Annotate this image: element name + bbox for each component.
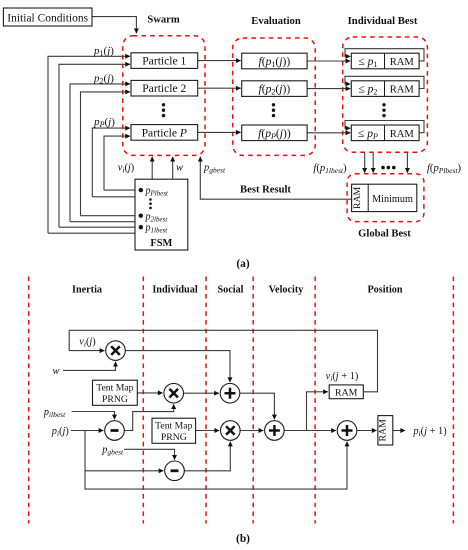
- svg-text:Social: Social: [217, 285, 243, 296]
- svg-text:Tent Map: Tent Map: [96, 382, 133, 393]
- svg-text:pi(j): pi(j): [51, 426, 69, 438]
- bullet p_2lbest: [139, 214, 143, 218]
- svg-text:Particle 2: Particle 2: [142, 82, 186, 95]
- dashed divider b6: [452, 277, 454, 524]
- box leq pP RAM: [351, 125, 419, 141]
- box leq p1 RAM: [351, 53, 419, 69]
- divider minimum RAM: [367, 184, 369, 211]
- svg-text:(b): (b): [236, 533, 250, 545]
- dashed box Swarm: [123, 36, 205, 156]
- wire ibest2 to minimum: [372, 152, 374, 173]
- svg-text:Particle P: Particle P: [142, 126, 187, 139]
- dashed divider b1: [28, 277, 30, 524]
- divider leq p1 RAM: [384, 53, 386, 69]
- svg-text:pi(j + 1): pi(j + 1): [412, 426, 446, 438]
- wire p1 upper: [48, 56, 130, 233]
- wire +2 out to +3: [284, 430, 336, 432]
- box f(p1(j)): [242, 53, 307, 69]
- box RAM position: [378, 416, 393, 445]
- wire p1 lower: [59, 64, 130, 227]
- svg-text:vi(j): vi(j): [79, 337, 96, 349]
- wire pi(j) to -2: [85, 470, 163, 472]
- symbol +1: [225, 388, 236, 399]
- PART B: [29, 277, 454, 524]
- box Particle 2: [131, 80, 198, 96]
- subtractor -2: [165, 461, 185, 481]
- dashed divider b4: [252, 277, 254, 524]
- wire pi(j) down branch: [85, 431, 347, 490]
- wire feedback loop rowP: [345, 121, 424, 133]
- svg-text:f(p1(j)): f(p1(j)): [259, 55, 291, 69]
- svg-text:Tent Map: Tent Map: [155, 420, 192, 431]
- svg-text:vi(j): vi(j): [118, 163, 135, 175]
- symbol +2: [269, 425, 280, 436]
- svg-text:PRNG: PRNG: [102, 394, 128, 405]
- wire +3 out to RAM2: [357, 430, 377, 432]
- svg-text:Velocity: Velocity: [269, 285, 304, 296]
- wire particle2 to f2: [198, 87, 241, 89]
- adder +1 individual: [220, 383, 240, 403]
- box Tent Map PRNG 2: [152, 418, 196, 443]
- svg-text:Minimum: Minimum: [372, 194, 413, 205]
- svg-text:p2(j): p2(j): [93, 72, 114, 85]
- wire init conditions to swarm: [92, 17, 136, 34]
- wire -2 out to X3 bottom: [184, 442, 230, 471]
- multiplier X1 inertia: [106, 341, 126, 361]
- svg-text:pP(j): pP(j): [93, 116, 115, 129]
- wire X1 out to +1 top: [125, 351, 230, 383]
- svg-text:RAM: RAM: [390, 129, 415, 140]
- bullet p_1lbest: [139, 225, 143, 229]
- wire +1 out to +2 top: [240, 393, 275, 419]
- svg-text:Best Result: Best Result: [240, 185, 291, 196]
- wire fP to leq pP: [307, 132, 350, 134]
- wire vi(j) feedback from RAM1: [69, 330, 377, 392]
- svg-text:Inertia: Inertia: [72, 285, 102, 296]
- dots individual best column: [382, 103, 385, 117]
- svg-text:Swarm: Swarm: [147, 14, 180, 25]
- svg-text:RAM: RAM: [390, 85, 415, 96]
- symbol +3: [342, 425, 353, 436]
- dashed divider b2: [142, 277, 144, 524]
- dots evaluation column: [272, 103, 275, 117]
- divider leq pP RAM: [384, 125, 386, 141]
- box Particle 1: [131, 53, 198, 69]
- box Minimum with RAM: [352, 184, 417, 211]
- wire f2 to leq p2: [307, 88, 350, 90]
- wire X3 out to +2: [240, 430, 263, 432]
- box f(p2(j)): [242, 81, 307, 97]
- wire junction to RAM1: [307, 392, 328, 431]
- wire pP upper: [92, 128, 130, 197]
- dashed divider b5: [314, 277, 316, 524]
- svg-text:f(p2(j)): f(p2(j)): [259, 83, 291, 97]
- wire pgbest to -2 top: [124, 449, 175, 459]
- wire particleP to fP: [198, 131, 241, 133]
- svg-text:Initial Conditions: Initial Conditions: [7, 12, 88, 24]
- svg-text:PRNG: PRNG: [161, 432, 187, 443]
- wire p2 upper: [70, 84, 130, 222]
- svg-text:RAM: RAM: [352, 186, 363, 209]
- wire p2 lower: [81, 92, 131, 216]
- wire pP lower: [104, 136, 130, 190]
- symbol X2: [169, 389, 178, 398]
- wire f1 to leq p1: [307, 60, 350, 62]
- svg-text:Global Best: Global Best: [358, 228, 411, 239]
- wire X2 out to +1: [184, 392, 219, 394]
- symbol X3: [226, 426, 235, 435]
- wire -1 out to X2 bottom: [124, 404, 173, 430]
- svg-text:(a): (a): [236, 258, 249, 270]
- svg-text:Individual: Individual: [152, 285, 197, 296]
- adder +3 position: [337, 421, 357, 441]
- svg-text:RAM: RAM: [390, 57, 415, 68]
- svg-text:Evaluation: Evaluation: [251, 16, 301, 27]
- symbol X1: [111, 346, 120, 355]
- box FSM: [135, 179, 188, 250]
- multiplier X3 social: [221, 421, 241, 441]
- subtractor -1: [105, 421, 125, 441]
- box RAM vi(j+1): [329, 385, 363, 399]
- multiplier X2 individual: [164, 383, 184, 403]
- dots between f arrows: [381, 166, 395, 170]
- wire fsm to swarm w: [172, 157, 174, 179]
- symbol -2: [171, 469, 179, 472]
- dots swarm column: [162, 103, 165, 117]
- wire particle1 to f1: [198, 60, 241, 62]
- svg-text:FSM: FSM: [150, 238, 172, 249]
- wire feedback loop row2: [345, 76, 424, 88]
- wire pilbest to -1 top: [72, 412, 115, 420]
- box Initial Conditions: [3, 8, 92, 26]
- dashed box Individual Best: [343, 37, 428, 152]
- svg-text:Particle 1: Particle 1: [142, 55, 186, 68]
- symbol -1: [111, 429, 119, 432]
- box Particle P: [131, 125, 198, 141]
- dashed divider b3: [205, 277, 207, 524]
- box Tent Map PRNG 1: [93, 380, 138, 405]
- svg-text:RAM: RAM: [335, 387, 358, 398]
- svg-text:RAM: RAM: [377, 419, 388, 442]
- adder +2 velocity: [265, 421, 285, 441]
- svg-text:w: w: [176, 163, 183, 174]
- wire RAM2 out: [393, 430, 405, 432]
- wire PRNG2 out to X3: [196, 430, 220, 432]
- dots fsm: [149, 198, 152, 209]
- svg-text:Individual Best: Individual Best: [348, 15, 418, 27]
- box f(pP(j)): [242, 125, 307, 141]
- wire ibest1 to minimum: [364, 152, 366, 173]
- dashed box Global Best: [347, 174, 424, 222]
- wire PRNG1 out to X2: [137, 392, 162, 394]
- svg-text:Position: Position: [367, 285, 402, 296]
- box leq p2 RAM: [351, 81, 419, 97]
- wire fsm to swarm vi(j): [151, 157, 153, 179]
- dashed box Evaluation: [233, 38, 316, 155]
- svg-text:p1(j): p1(j): [93, 45, 114, 58]
- wire ibestP to minimum: [406, 152, 408, 173]
- bullet p_Plbest: [139, 188, 143, 192]
- wire w to X1 bottom: [63, 362, 116, 371]
- wire feedback loop row1: [345, 49, 424, 61]
- wire pi(j) to -1: [71, 430, 104, 432]
- wire best result to pgbest: [200, 157, 351, 199]
- divider leq p2 RAM: [384, 81, 386, 97]
- svg-text:w: w: [53, 366, 60, 377]
